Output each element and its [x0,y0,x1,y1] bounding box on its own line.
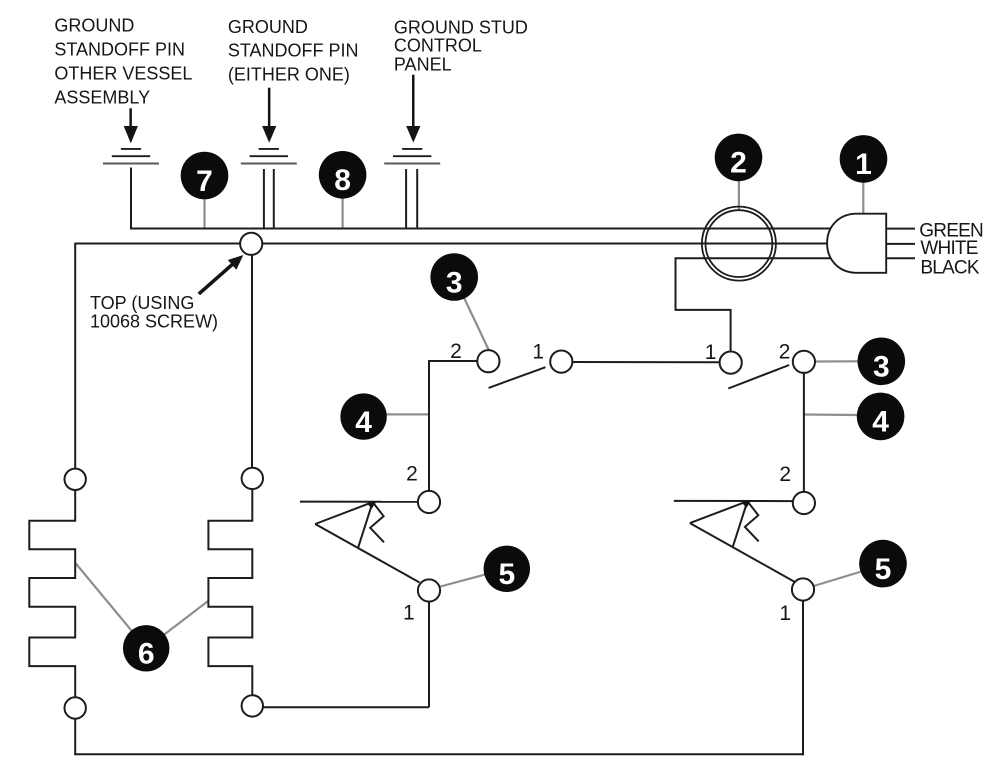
callout line to badge 6 (right branch) [146,601,209,649]
callout line to badge 3 right [815,360,858,362]
wire switch terminal 2 left corner [429,361,477,491]
wire right switch terminal 2 down [803,373,805,492]
ground stem G2 left pin [263,169,265,229]
callout line to badge 5 left [441,569,507,587]
svg-text:3: 3 [446,266,463,299]
terminal 2 upper-right switch [793,351,815,373]
svg-text:10068 SCREW): 10068 SCREW) [90,311,218,331]
svg-text:7: 7 [196,165,213,198]
arrow to top node (10068 screw) [198,255,244,295]
badge 6 [123,625,169,671]
svg-text:6: 6 [138,638,155,671]
svg-text:5: 5 [498,558,515,591]
green wire stub right of plug [886,228,915,230]
svg-text:2: 2 [779,341,791,364]
badge 1 [840,135,888,183]
white wire node bus to plug [75,243,832,245]
ground stem G3 left pin [405,169,407,229]
svg-text:PANEL: PANEL [394,55,452,75]
terminal 2 right thermostat [793,492,815,514]
label arrow to G1 [124,108,138,143]
svg-text:1: 1 [532,341,544,364]
thermostat left: bimetal triangle [315,502,373,548]
svg-text:2: 2 [730,147,747,180]
power plug body [827,214,886,273]
svg-text:2: 2 [406,463,418,486]
wire below left thermostat terminal 1 [428,602,430,708]
terminal 1 upper-left switch [550,351,572,373]
svg-text:5: 5 [875,553,892,586]
badge 3 right [858,338,906,386]
svg-text:(EITHER ONE): (EITHER ONE) [228,65,350,85]
thermostat right: spring zigzag [745,501,759,541]
svg-text:4: 4 [872,406,889,439]
svg-text:3: 3 [873,351,890,384]
svg-text:TOP (USING: TOP (USING [90,293,194,313]
callout line to badge 1 [862,183,864,214]
svg-text:BLACK: BLACK [920,257,979,278]
callout line to badge 8 [342,199,344,229]
label arrow to G3 [406,75,420,143]
terminal 1 left thermostat [418,579,440,601]
ground stem G1 [130,168,132,230]
ground symbol G2 either one [241,149,297,164]
svg-text:GROUND: GROUND [228,17,308,37]
badge 4 right [857,393,905,441]
callout line to badge 2 [738,181,740,210]
left element top terminal [65,469,86,490]
badge 2 [715,134,763,182]
badge 7 [181,152,229,200]
callout line to badge 6 (left branch) [76,564,146,649]
switch blade left [489,367,546,388]
right element top terminal [242,468,263,489]
thermostat left: contact arrowhead [367,501,377,508]
bottom bus wire [74,753,804,755]
svg-text:STANDOFF PIN: STANDOFF PIN [228,41,359,61]
thermostat right: bimetal triangle [690,501,748,547]
callout line to badge 5 right [814,565,884,586]
svg-text:1: 1 [779,602,791,625]
wire right element bottom to left thermostat [263,706,429,708]
wire below right thermostat terminal 1 [802,601,804,756]
terminal 1 right thermostat [792,578,814,600]
green wire ground bus to plug [130,228,832,230]
left element bottom terminal [65,697,86,718]
svg-text:CONTROL: CONTROL [394,36,482,56]
ground stem G3 right pin [416,169,418,229]
svg-text:4: 4 [355,406,372,439]
svg-text:STANDOFF PIN: STANDOFF PIN [54,40,185,60]
svg-text:ASSEMBLY: ASSEMBLY [54,87,150,107]
white wire stub right of plug [886,243,915,245]
callout line to badge 4 right [804,413,857,416]
callout line to badge 7 [203,199,205,229]
svg-text:OTHER VESSEL: OTHER VESSEL [54,64,192,84]
badge 3 left [430,253,478,301]
switch blade right [728,365,789,389]
label ground standoff pin other vessel assembly [54,16,192,108]
thermostat left: spring zigzag [370,502,384,542]
callout line to badge 4 left [386,413,429,415]
svg-text:2: 2 [779,463,791,486]
wire left element bottom to bus [74,719,76,756]
thermostat right: contact arrowhead [742,500,752,507]
ground symbol G3 control panel [384,149,440,164]
callout line to badge 3 left [454,277,489,351]
right element bottom terminal [242,695,263,716]
svg-text:1: 1 [855,148,872,181]
label ground standoff pin either one [228,17,359,85]
svg-text:2: 2 [450,340,462,363]
black wire stub right of plug [886,257,915,259]
svg-text:1: 1 [403,602,415,625]
strain relief double circle [702,207,776,281]
thermostat left: blade to terminal 1 [315,524,419,583]
badge 8 [319,151,367,199]
badge 5 right [859,540,907,588]
thermostat right: sensing line [674,500,793,502]
wire left vertical from white bus down to left element [74,243,76,469]
badge 4 left [340,393,386,439]
black wire from plug [676,258,833,352]
ground stem G2 right pin [273,169,275,229]
terminal 2 upper-left switch [477,350,499,372]
heating element left (coil) [29,490,75,697]
heating element right (coil) [208,489,252,695]
badge 5 left [484,546,530,592]
svg-text:8: 8 [334,164,351,197]
thermostat left: sensing line [300,501,418,503]
node junction top (10068 screw) [240,233,262,255]
label ground stud control panel [394,17,528,74]
svg-text:WHITE: WHITE [920,238,977,259]
wire between switch terminals 1 [572,361,719,363]
ground symbol G1 other vessel assembly [103,149,159,164]
thermostat right: blade to terminal 1 [690,523,794,582]
svg-text:GROUND: GROUND [54,16,134,36]
label arrow to G2 [262,88,276,143]
wire node down to right element [251,255,253,468]
label top using 10068 screw [90,293,218,331]
terminal 2 left thermostat [418,491,440,513]
svg-text:GROUND STUD: GROUND STUD [394,17,528,37]
svg-text:1: 1 [705,341,717,364]
terminal 1 upper-right switch [720,352,742,374]
